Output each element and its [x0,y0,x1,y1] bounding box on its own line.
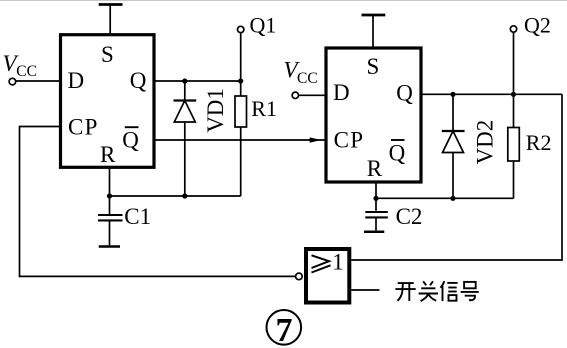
svg-text:Q: Q [122,127,139,152]
svg-text:D: D [68,68,85,93]
svg-text:Q: Q [130,68,147,93]
svg-text:CP: CP [334,127,365,152]
svg-text:C1: C1 [124,204,151,229]
svg-text:R2: R2 [526,130,552,155]
svg-text:VD2: VD2 [473,120,498,165]
svg-text:CP: CP [68,115,99,140]
svg-text:C2: C2 [396,204,423,229]
svg-text:R: R [100,142,116,167]
svg-text:VD1: VD1 [203,88,228,133]
svg-text:D: D [333,80,350,105]
svg-text:Q: Q [389,141,406,166]
svg-text:CC: CC [297,70,318,87]
svg-text:S: S [101,42,114,67]
svg-text:Q1: Q1 [250,12,277,37]
svg-text:S: S [367,54,380,79]
svg-text:7: 7 [276,312,293,348]
svg-text:CC: CC [16,63,37,80]
svg-text:R1: R1 [251,96,277,121]
svg-text:Q: Q [396,80,413,105]
svg-text:Q2: Q2 [524,12,551,37]
svg-text:1: 1 [332,250,344,275]
svg-text:R: R [367,156,383,181]
